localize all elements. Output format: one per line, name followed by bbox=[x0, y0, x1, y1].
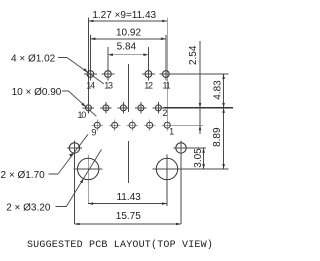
svg-text:2.54: 2.54 bbox=[188, 45, 199, 65]
dim 10.92 bbox=[90, 28, 165, 68]
svg-text:SUGGESTED PCB LAYOUT(TOP VIEW): SUGGESTED PCB LAYOUT(TOP VIEW) bbox=[27, 239, 213, 251]
pad 10 bbox=[83, 102, 95, 114]
left middle hole O1.70 bbox=[67, 140, 82, 224]
svg-text:3.05: 3.05 bbox=[193, 148, 204, 168]
pad 13 bbox=[102, 68, 115, 81]
svg-text:14: 14 bbox=[86, 80, 95, 90]
pad number labels 10 9 2 1 bbox=[77, 108, 174, 138]
pad 14 bbox=[84, 68, 97, 81]
dim 5.84 bbox=[108, 42, 148, 68]
svg-text:10.92: 10.92 bbox=[116, 28, 141, 39]
svg-text:5.84: 5.84 bbox=[117, 42, 137, 53]
pad 7 bbox=[109, 119, 121, 131]
pad 9 bbox=[91, 119, 103, 131]
svg-text:8.89: 8.89 bbox=[212, 127, 223, 147]
svg-text:2 × Ø3.20: 2 × Ø3.20 bbox=[6, 203, 51, 214]
dim 4.83 vertical bbox=[212, 74, 225, 108]
right middle hole O1.70 bbox=[174, 140, 189, 224]
svg-text:10: 10 bbox=[77, 110, 86, 120]
dim 8.89 vertical bbox=[212, 108, 225, 169]
pad 12 bbox=[142, 68, 155, 81]
pad 3 bbox=[144, 119, 156, 131]
svg-text:4.83: 4.83 bbox=[212, 80, 223, 100]
extension line from pad 1 to right bbox=[173, 124, 203, 126]
svg-text:4 × Ø1.02: 4 × Ø1.02 bbox=[11, 53, 56, 64]
pad 5 bbox=[126, 119, 138, 131]
pad 11 bbox=[160, 68, 173, 81]
dim 15.75 bottom bbox=[75, 211, 182, 225]
label 4 x O1.02 with leader to pad 14 bbox=[11, 53, 104, 84]
svg-text:12: 12 bbox=[144, 80, 153, 90]
label 2 x O1.70 with leader to left middle hole bbox=[1, 134, 89, 181]
left big hole O3.20 bbox=[74, 155, 103, 204]
pad 4 bbox=[135, 102, 147, 114]
extension line from pad 2 to right bbox=[164, 107, 234, 109]
dim 2.54 vertical bbox=[188, 41, 201, 134]
svg-text:10 × Ø0.90: 10 × Ø0.90 bbox=[12, 87, 62, 98]
label 10 x O0.90 with leader to pad 10 bbox=[12, 87, 97, 116]
label 2 x O3.20 with leader to left big hole bbox=[6, 149, 101, 213]
svg-text:11.43: 11.43 bbox=[116, 192, 141, 203]
svg-text:15.75: 15.75 bbox=[116, 211, 141, 222]
svg-text:1.27 ×9=11.43: 1.27 ×9=11.43 bbox=[92, 10, 156, 21]
svg-text:2 × Ø1.70: 2 × Ø1.70 bbox=[1, 170, 46, 181]
pad 6 bbox=[118, 102, 130, 114]
svg-text:13: 13 bbox=[104, 80, 113, 90]
extension line from right middle hole to right bbox=[189, 147, 206, 149]
centerline (vertical axis) bbox=[127, 64, 129, 183]
dim 1.27x9=11.43 top bbox=[88, 10, 167, 119]
extension line from right big hole to right bbox=[182, 168, 229, 170]
pad 2 bbox=[153, 102, 165, 114]
right big hole O3.20 bbox=[153, 155, 182, 207]
pad 8 bbox=[100, 102, 112, 114]
dim 3.05 vertical bbox=[193, 148, 205, 169]
extension line from pad 11 to right bbox=[172, 73, 228, 75]
svg-text:11: 11 bbox=[163, 80, 171, 90]
dim 11.43 bottom bbox=[88, 192, 167, 205]
pad number labels 14 13 12 11 bbox=[86, 80, 170, 90]
pad 1 bbox=[161, 119, 173, 131]
